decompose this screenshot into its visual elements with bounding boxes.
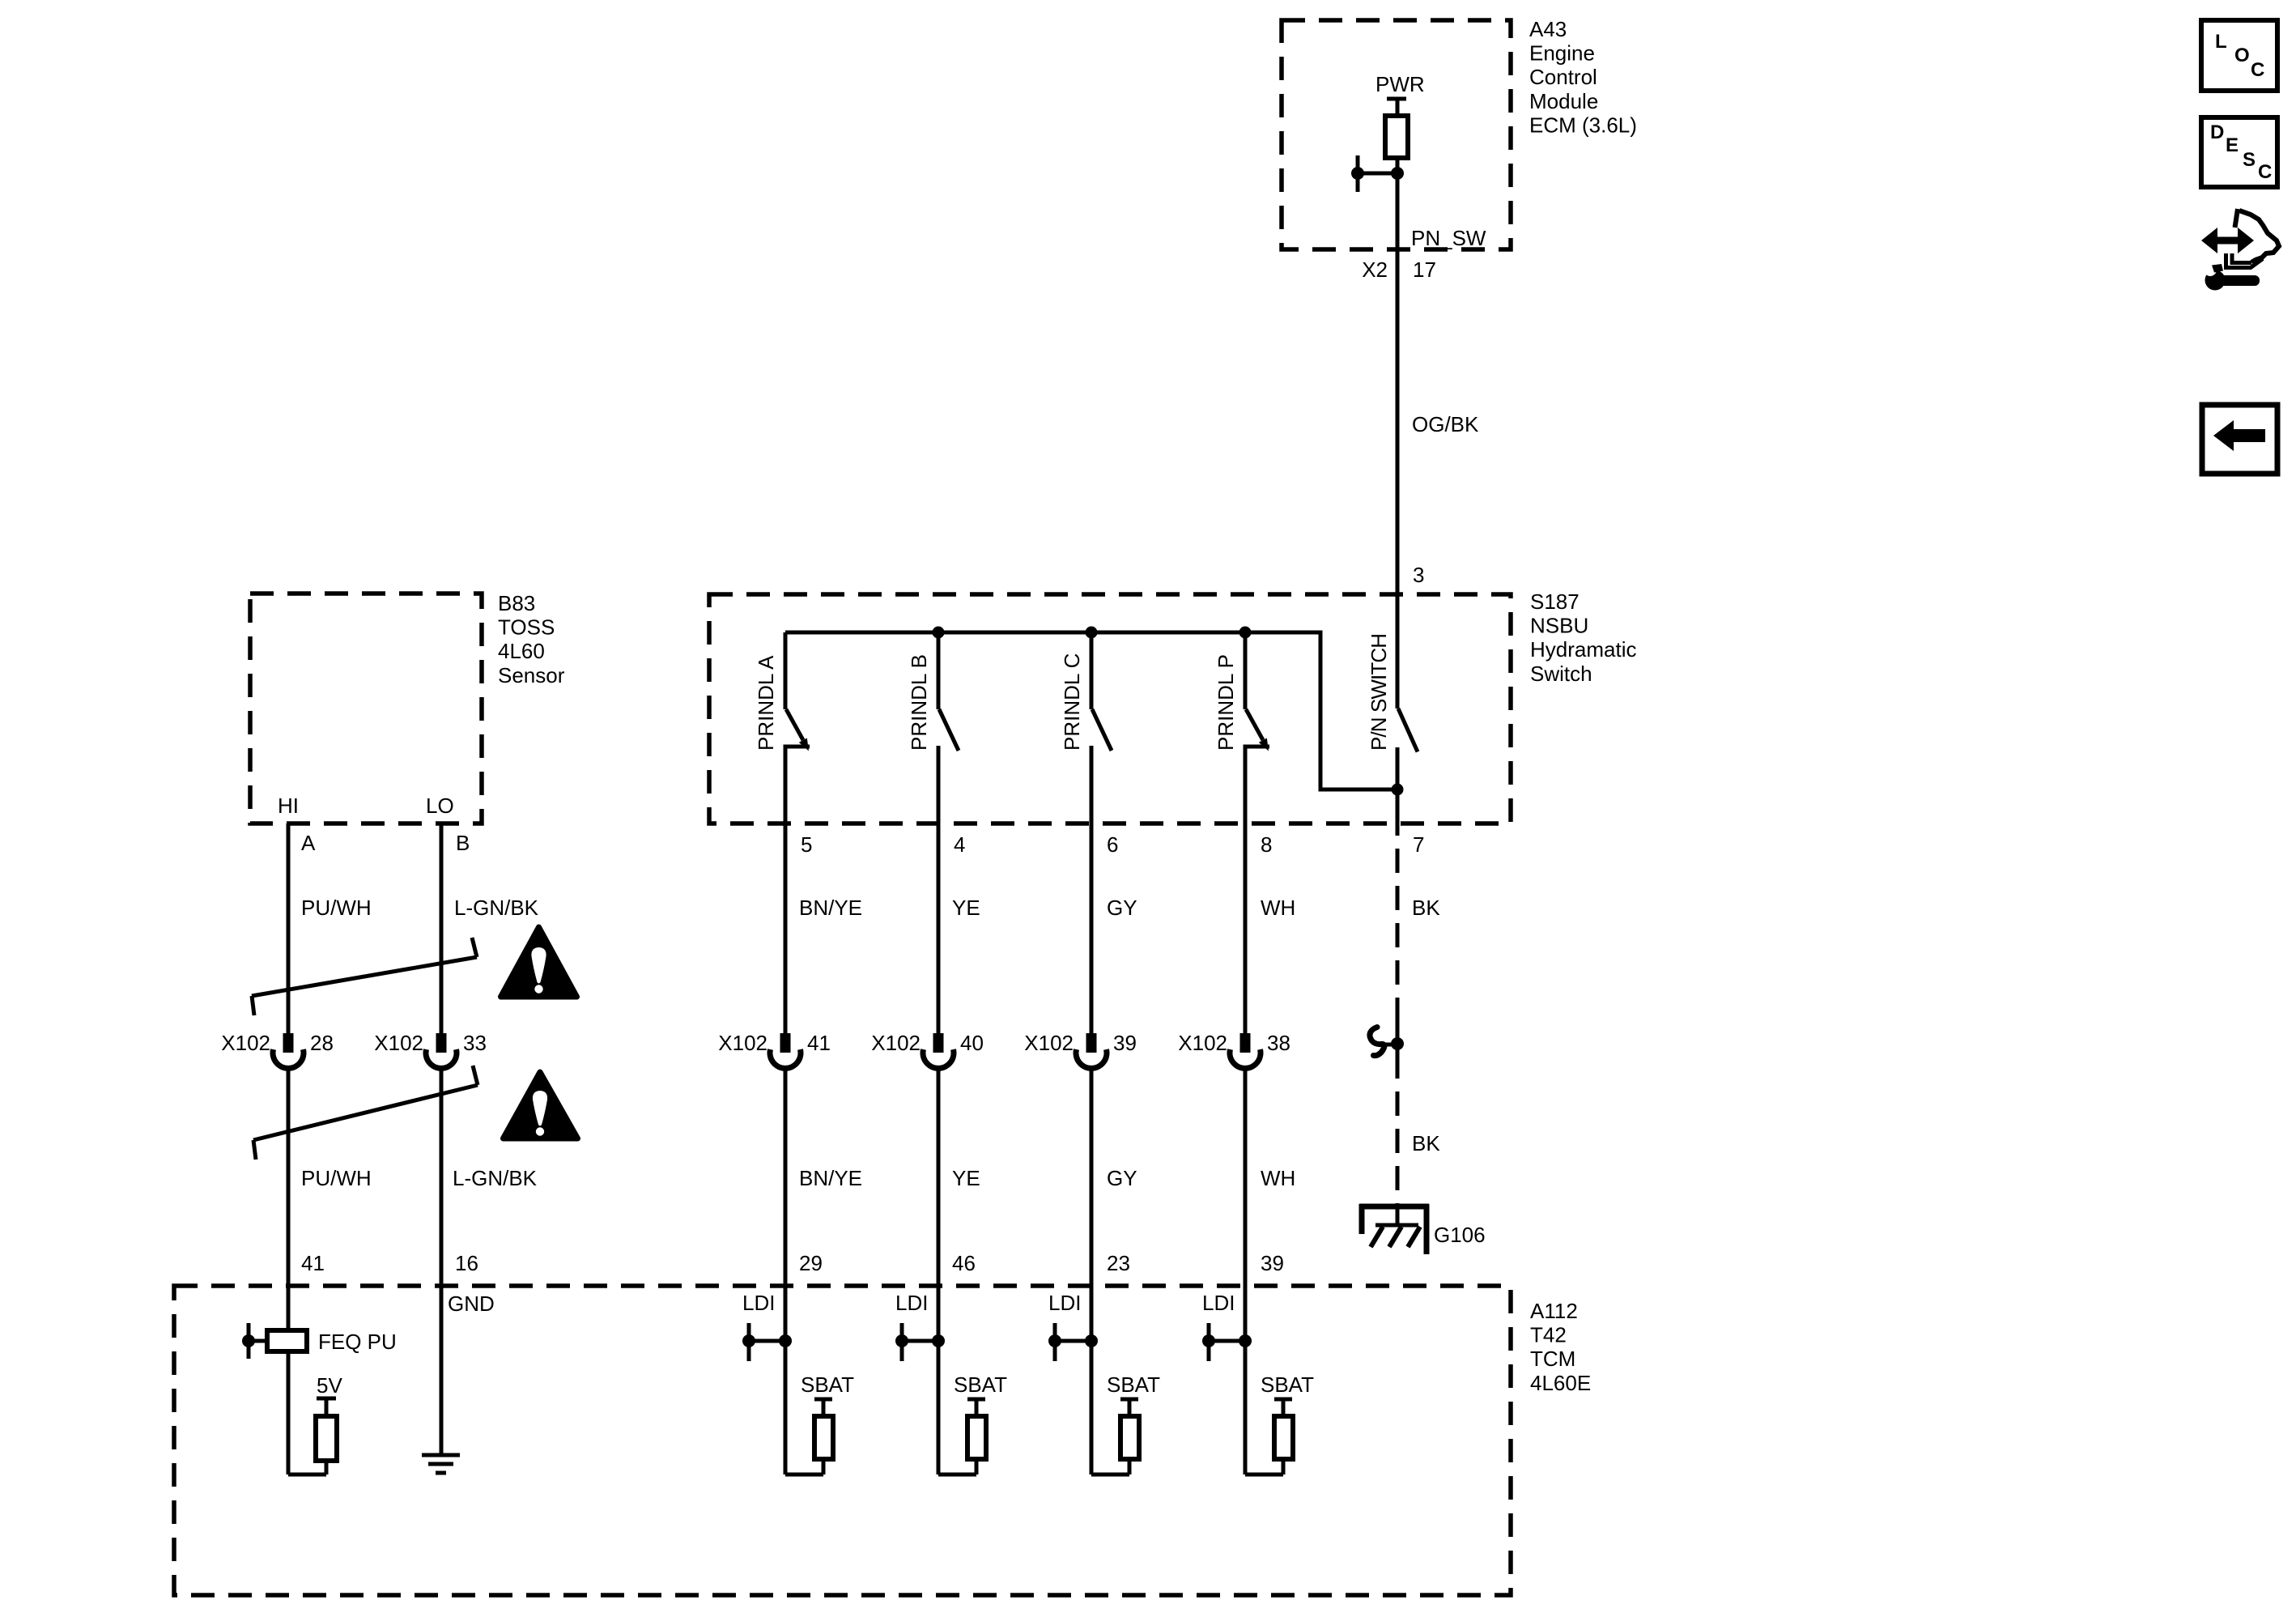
junction dot left <box>1351 167 1364 180</box>
svg-text:7: 7 <box>1413 832 1424 857</box>
junction dot on PN_SW wire <box>1391 167 1404 180</box>
connector X102 pin 39 <box>1076 1033 1107 1068</box>
svg-text:X2: X2 <box>1362 257 1388 282</box>
svg-text:LDI: LDI <box>742 1291 775 1315</box>
svg-text:LDI: LDI <box>1048 1291 1081 1315</box>
wire BK dashed lower <box>1396 1079 1400 1206</box>
svg-text:PRINDL C: PRINDL C <box>1060 653 1084 751</box>
svg-text:X102: X102 <box>1178 1031 1227 1055</box>
wire PRINDL A lower <box>784 1066 788 1474</box>
wire PRINDL A upper <box>784 746 788 1033</box>
svg-text:4: 4 <box>954 832 965 857</box>
svg-text:D: D <box>2210 121 2224 143</box>
connector X102 pin 33 <box>426 1033 457 1068</box>
wire LO sensor lower <box>440 1066 444 1453</box>
icon vehicle data double arrow <box>2201 228 2254 253</box>
switch PRINDL A <box>784 632 810 751</box>
svg-text:PRINDL B: PRINDL B <box>907 654 931 751</box>
svg-text:5V: 5V <box>317 1373 342 1398</box>
svg-text:L-GN/BK: L-GN/BK <box>453 1166 538 1190</box>
svg-text:39: 39 <box>1113 1031 1137 1055</box>
junction dot LDI (P) <box>1239 1334 1252 1347</box>
wire PRINDL P lower <box>1244 1066 1248 1474</box>
svg-text:40: 40 <box>960 1031 984 1055</box>
svg-text:SBAT: SBAT <box>801 1372 854 1397</box>
TCM module box A112 <box>174 1286 1511 1595</box>
switch PRINDL B <box>938 632 959 751</box>
svg-text:GY: GY <box>1107 896 1137 920</box>
svg-text:BN/YE: BN/YE <box>799 896 862 920</box>
svg-text:YE: YE <box>952 896 980 920</box>
ground G106 <box>1359 1204 1429 1254</box>
svg-text:39: 39 <box>1261 1251 1284 1275</box>
crossed-wires annotation upper <box>252 938 477 1015</box>
NSBU switch box S187 <box>709 594 1511 823</box>
svg-text:BK: BK <box>1412 896 1440 920</box>
sensor box B83 TOSS <box>250 594 482 823</box>
svg-text:PWR: PWR <box>1375 72 1425 96</box>
svg-text:3: 3 <box>1413 563 1424 587</box>
junction dot LDI (C) <box>1085 1334 1098 1347</box>
warning triangle lower <box>504 1072 578 1138</box>
svg-text:X102: X102 <box>221 1031 270 1055</box>
svg-text:PU/WH: PU/WH <box>301 896 372 920</box>
connector X102 pin 38 <box>1230 1033 1261 1068</box>
svg-text:X102: X102 <box>1024 1031 1074 1055</box>
wire stub left of junction <box>1358 172 1397 176</box>
wire PRINDL C lower <box>1090 1066 1094 1474</box>
svg-text:SBAT: SBAT <box>1107 1372 1160 1397</box>
svg-text:C: C <box>2251 59 2264 81</box>
wire BK dashed upper <box>1396 836 1400 1008</box>
svg-text:YE: YE <box>952 1166 980 1190</box>
LDI stub wire (B) <box>895 1323 938 1361</box>
connector X102 pin 40 <box>923 1033 954 1068</box>
svg-text:WH: WH <box>1261 896 1295 920</box>
wire PRINDL B lower <box>937 1066 941 1474</box>
LDI stub wire (A) <box>742 1323 785 1361</box>
junction node on bus above PRINDL P <box>1239 627 1252 639</box>
svg-text:BN/YE: BN/YE <box>799 1166 862 1190</box>
svg-text:L-GN/BK: L-GN/BK <box>454 896 539 920</box>
svg-text:17: 17 <box>1413 257 1436 282</box>
junction dot inline connector <box>1391 1037 1404 1050</box>
svg-text:GND: GND <box>448 1291 495 1316</box>
svg-text:S: S <box>2243 149 2256 171</box>
warning triangle upper <box>501 927 577 997</box>
svg-text:38: 38 <box>1267 1031 1290 1055</box>
svg-text:PN_SW: PN_SW <box>1411 226 1486 250</box>
icon DESC button <box>2201 117 2277 187</box>
wire resistor to junction <box>1396 158 1400 173</box>
svg-text:X102: X102 <box>718 1031 767 1055</box>
svg-text:8: 8 <box>1261 832 1272 857</box>
svg-text:41: 41 <box>301 1251 325 1275</box>
svg-text:LDI: LDI <box>1202 1291 1235 1315</box>
wire PRINDL B upper <box>937 746 941 1033</box>
ground symbol inside TCM <box>422 1455 460 1473</box>
resistor PWR pull-up inside ECM <box>1385 116 1408 158</box>
icon LOC button <box>2201 20 2277 91</box>
inline connector clip <box>1370 1028 1397 1056</box>
junction node on bus above PRINDL C <box>1086 627 1098 639</box>
svg-text:LDI: LDI <box>895 1291 928 1315</box>
svg-text:PRINDL P: PRINDL P <box>1214 654 1238 751</box>
svg-text:X102: X102 <box>871 1031 921 1055</box>
icon back arrow button <box>2202 405 2277 474</box>
junction dot LDI (B) <box>932 1334 945 1347</box>
ECM module box A43 <box>1282 20 1511 249</box>
resistor SBAT pull-up (A) <box>785 1399 833 1474</box>
svg-text:P/N SWITCH: P/N SWITCH <box>1367 633 1391 751</box>
svg-text:46: 46 <box>952 1251 976 1275</box>
svg-text:HI: HI <box>278 794 299 818</box>
svg-text:FEQ PU: FEQ PU <box>318 1330 397 1354</box>
resistor SBAT pull-up (C) <box>1091 1399 1139 1474</box>
icon wrench <box>2204 263 2260 291</box>
resistor FEQ PU <box>242 1323 307 1359</box>
wire PN_SW output of ECM <box>1396 173 1400 594</box>
svg-text:PRINDL A: PRINDL A <box>754 655 778 751</box>
LDI stub wire (P) <box>1202 1323 1245 1361</box>
connector X102 pin 28 <box>273 1033 304 1068</box>
junction dot LDI (A) <box>779 1334 792 1347</box>
svg-text:OG/BK: OG/BK <box>1412 412 1479 436</box>
svg-text:6: 6 <box>1107 832 1118 857</box>
svg-text:A: A <box>301 831 316 855</box>
icon vehicle silhouette <box>2226 209 2280 268</box>
resistor 5V pull-up <box>288 1398 337 1474</box>
svg-text:L: L <box>2215 31 2227 53</box>
wire HI sensor lower <box>287 1066 291 1474</box>
crossed-wires annotation lower <box>253 1066 478 1160</box>
svg-text:SBAT: SBAT <box>1261 1372 1314 1397</box>
power rail bar PWR <box>1387 97 1406 101</box>
switch PRINDL P <box>1244 632 1270 751</box>
wire HI sensor upper <box>287 823 291 1033</box>
junction node on bus above PRINDL B <box>933 627 945 639</box>
switch P/N SWITCH <box>1397 594 1418 836</box>
svg-text:WH: WH <box>1261 1166 1295 1190</box>
resistor SBAT pull-up (P) <box>1245 1399 1293 1474</box>
svg-text:SBAT: SBAT <box>954 1372 1007 1397</box>
svg-text:16: 16 <box>455 1251 478 1275</box>
wire PRINDL P upper <box>1244 746 1248 1033</box>
svg-text:X102: X102 <box>374 1031 423 1055</box>
svg-text:23: 23 <box>1107 1251 1130 1275</box>
svg-text:33: 33 <box>463 1031 487 1055</box>
svg-text:B: B <box>456 831 470 855</box>
junction node bus to P/N switch <box>1392 784 1404 796</box>
svg-text:G106: G106 <box>1434 1223 1486 1247</box>
svg-text:BK: BK <box>1412 1131 1440 1155</box>
svg-text:5: 5 <box>801 832 812 857</box>
wire solid at inline connector <box>1396 1006 1400 1079</box>
wire PRINDL C upper <box>1090 746 1094 1033</box>
bus wire inside NSBU switch <box>785 632 1397 789</box>
svg-text:41: 41 <box>807 1031 831 1055</box>
connector X102 pin 41 <box>770 1033 801 1068</box>
wire LO sensor upper <box>440 823 444 1033</box>
svg-text:29: 29 <box>799 1251 823 1275</box>
svg-text:PU/WH: PU/WH <box>301 1166 372 1190</box>
switch PRINDL C <box>1091 632 1112 751</box>
svg-text:C: C <box>2258 161 2272 183</box>
svg-text:O: O <box>2234 45 2250 66</box>
LDI stub wire (C) <box>1048 1323 1091 1361</box>
resistor SBAT pull-up (B) <box>938 1399 986 1474</box>
svg-text:LO: LO <box>426 794 454 818</box>
svg-text:E: E <box>2226 134 2239 156</box>
svg-text:GY: GY <box>1107 1166 1137 1190</box>
svg-text:28: 28 <box>310 1031 334 1055</box>
